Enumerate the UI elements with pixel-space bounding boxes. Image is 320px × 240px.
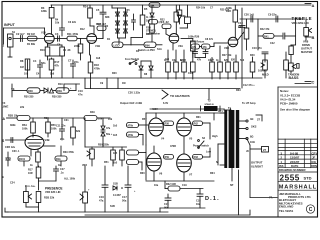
potentiometer VR7 BASS — [290, 45, 292, 46]
MARSHALL — [278, 189, 318, 191]
resistor R57b — [127, 160, 139, 165]
potentiometer VR2 PRESENCE — [24, 192, 29, 203]
resistor R42 — [246, 19, 248, 28]
resistor R25 — [183, 50, 185, 62]
label VR8 OUTPUT MASTER — [301, 40, 312, 55]
svg-text:C7: C7 — [68, 59, 72, 63]
wire — [112, 7, 118, 9]
svg-text:.1a: .1a — [60, 172, 64, 175]
capacitor C05 — [133, 14, 135, 20]
resistor R3 — [51, 18, 53, 34]
resistor R49 — [84, 116, 148, 171]
svg-text:DRIVE: DRIVE — [302, 43, 310, 47]
svg-text:V4: V4 — [161, 137, 165, 141]
resistor R63 — [193, 155, 203, 160]
svg-text:47k: 47k — [192, 46, 197, 49]
svg-text:R17: R17 — [55, 60, 60, 64]
svg-text:ENGLAND: ENGLAND — [279, 205, 293, 209]
svg-text:14-087: 14-087 — [113, 194, 121, 197]
svg-text:10k: 10k — [150, 3, 155, 7]
wire ground bus bottom — [4, 208, 6, 212]
svg-text:47k: 47k — [55, 64, 60, 68]
svg-text:C9 22n: C9 22n — [268, 13, 277, 17]
revision rows text — [279, 152, 317, 169]
resistor R22 — [151, 5, 153, 13]
svg-text:C19: C19 — [182, 184, 187, 187]
svg-text:47k: 47k — [197, 59, 202, 62]
svg-text:+: + — [88, 189, 90, 192]
svg-text:See also 50w diagram: See also 50w diagram — [280, 108, 310, 112]
resistor R12 — [80, 39, 82, 45]
svg-text:R36: R36 — [44, 117, 49, 120]
svg-text:68K: 68K — [105, 16, 110, 19]
switch S2 standby — [198, 140, 200, 142]
svg-text:V6: V6 — [159, 172, 163, 176]
resistor R39 — [56, 88, 69, 93]
resistor R10 — [47, 43, 49, 47]
svg-text:PRESENCE: PRESENCE — [45, 187, 63, 191]
svg-text:Low: Low — [206, 151, 211, 154]
svg-text:C16: C16 — [99, 195, 104, 199]
tone stack right — [238, 8, 315, 88]
svg-text:R62: R62 — [194, 123, 199, 126]
capacitor C15 — [167, 194, 169, 198]
address — [279, 192, 311, 213]
svg-text:C4: C4 — [36, 73, 40, 76]
copyright circle — [306, 205, 314, 213]
resistor R90 — [144, 42, 156, 48]
svg-text:C11 22n: C11 22n — [56, 125, 66, 128]
svg-text:C05: C05 — [125, 9, 130, 12]
svg-text:390k: 390k — [10, 124, 16, 127]
notes text block — [280, 89, 310, 112]
svg-text:A: A — [3, 117, 6, 121]
svg-text:R101: R101 — [19, 158, 26, 161]
svg-text:VR8: VR8 — [303, 40, 309, 44]
svg-text:S: S — [2, 139, 5, 143]
resistor R55b — [127, 132, 139, 137]
svg-text:2555: 2555 — [280, 173, 300, 182]
svg-text:MARSHALL: MARSHALL — [279, 185, 317, 191]
svg-text:C10: C10 — [78, 89, 83, 93]
wire ground bus — [4, 78, 263, 89]
connector J7 — [256, 114, 262, 116]
capacitor C6b — [162, 24, 171, 29]
capacitor C5 — [97, 38, 104, 40]
svg-text:R39 330: R39 330 — [52, 96, 62, 99]
LED indicator — [112, 42, 123, 48]
svg-text:A: A — [312, 3, 315, 8]
svg-text:V3B: V3B — [45, 138, 50, 142]
wire — [153, 146, 155, 153]
pentode V7 — [177, 154, 192, 172]
resistor R26 — [192, 39, 194, 42]
capacitor C19 — [239, 25, 245, 27]
capacitor C6 — [48, 44, 63, 46]
svg-text:DRN: DRN — [311, 164, 317, 168]
resistor R52 — [121, 147, 123, 150]
resistor R2 — [28, 36, 38, 41]
svg-text:1k8: 1k8 — [165, 58, 170, 61]
svg-text:10k: 10k — [55, 22, 60, 25]
svg-text:47a: 47a — [99, 199, 104, 203]
svg-text:16a: 16a — [196, 203, 201, 206]
transformer T1 output — [220, 107, 277, 200]
svg-text:16Ω: 16Ω — [250, 141, 255, 144]
capacitor C32 — [7, 152, 9, 158]
svg-text:50a: 50a — [122, 199, 127, 203]
svg-text:R24 10k: R24 10k — [196, 7, 206, 10]
svg-text:XLR/SKT: XLR/SKT — [251, 165, 263, 169]
diode D2 — [116, 12, 120, 16]
resistor R17c — [5, 166, 168, 212]
svg-text:C4: C4 — [33, 59, 37, 63]
svg-text:R30: R30 — [28, 89, 33, 93]
svg-text:STAND B: STAND B — [205, 103, 215, 106]
input jack J1 — [8, 34, 14, 47]
resistor R33 — [252, 57, 254, 62]
heater wiring TO HEATERS — [150, 89, 231, 112]
svg-text:56a +: 56a + — [106, 133, 113, 136]
svg-text:1M: 1M — [20, 65, 24, 69]
svg-text:100k: 100k — [51, 128, 57, 131]
svg-text:TREBLE: TREBLE — [292, 16, 313, 21]
svg-text:820R: 820R — [180, 59, 186, 62]
svg-text:R3B 10k: R3B 10k — [8, 115, 18, 118]
svg-text:V7: V7 — [189, 173, 193, 177]
svg-text:C2 4n7: C2 4n7 — [16, 32, 25, 36]
svg-text:D1: D1 — [107, 38, 111, 41]
svg-text:68n: 68n — [41, 61, 46, 65]
triode V1A — [44, 34, 54, 44]
svg-text:R59: R59 — [165, 156, 170, 159]
svg-text:C: C — [312, 80, 315, 85]
svg-text:Switch on PSU: Switch on PSU — [138, 49, 155, 52]
svg-text:SP: SP — [230, 184, 234, 187]
svg-text:C19: C19 — [238, 21, 243, 25]
svg-text:V1B: V1B — [95, 44, 100, 48]
svg-text:R61: R61 — [196, 116, 201, 119]
resistor R26b — [192, 51, 194, 62]
svg-text:R51: R51 — [104, 161, 109, 164]
svg-text:R58: R58 — [165, 123, 170, 126]
svg-text:R64: R64 — [210, 172, 215, 175]
svg-text:S1B: S1B — [110, 205, 115, 208]
svg-text:1k8: 1k8 — [50, 73, 55, 76]
diode D3 — [124, 12, 128, 16]
svg-text:C3B 12a: C3B 12a — [5, 146, 15, 149]
svg-text:8Ω: 8Ω — [250, 136, 253, 139]
svg-text:R8: R8 — [20, 59, 24, 63]
svg-text:S1A: S1A — [157, 48, 162, 51]
resistor R62b — [193, 121, 203, 126]
svg-text:ALL 100k: ALL 100k — [64, 178, 76, 181]
svg-text:R41: R41 — [264, 35, 269, 38]
svg-text:Output XLR J.10B: Output XLR J.10B — [120, 101, 142, 105]
resistor R23 — [167, 50, 169, 62]
revision table — [278, 138, 318, 140]
svg-text:LED: LED — [114, 43, 121, 47]
svg-text:R39: R39 — [57, 89, 62, 93]
wire — [220, 112, 224, 114]
svg-text:R27 10k: R27 10k — [222, 54, 232, 57]
svg-text:Foot Switch: Foot Switch — [125, 58, 140, 61]
phase splitter stage — [2, 115, 84, 167]
svg-text:B: B — [312, 35, 315, 40]
svg-text:MASTER: MASTER — [301, 50, 312, 54]
svg-text:BASS: BASS — [289, 76, 300, 80]
resistor R24 — [175, 50, 177, 62]
resistor R27 — [211, 58, 213, 63]
svg-text:C6: C6 — [57, 43, 61, 47]
svg-text:10R: 10R — [28, 172, 33, 175]
svg-text:82k: 82k — [76, 130, 81, 133]
svg-text:10k: 10k — [108, 118, 113, 121]
resistor R2B — [36, 192, 41, 203]
svg-text:R50 220k: R50 220k — [98, 144, 109, 147]
potentiometer VR3 bias — [91, 147, 93, 149]
svg-text:C30 .1: C30 .1 — [12, 150, 20, 153]
svg-text:1: 1 — [3, 44, 5, 48]
svg-text:+: + — [70, 87, 72, 90]
svg-text:6.3V: 6.3V — [163, 102, 168, 105]
diode D4 — [44, 88, 48, 93]
svg-text:470k: 470k — [128, 134, 134, 137]
svg-text:INPUT: INPUT — [4, 23, 16, 27]
speaker jacks SK2 — [239, 120, 246, 122]
capacitor C18 — [199, 189, 201, 195]
svg-text:495V: 495V — [152, 108, 158, 111]
svg-text:470k: 470k — [128, 125, 134, 128]
node C — [305, 81, 311, 83]
svg-text:C3 22n: C3 22n — [68, 21, 77, 24]
svg-text:R62 10R: R62 10R — [166, 183, 176, 186]
resistor R17b — [149, 20, 158, 25]
svg-text:R49: R49 — [90, 111, 95, 114]
svg-text:77.: 77. — [269, 196, 273, 200]
svg-text:R22: R22 — [160, 19, 165, 22]
diode D5 and resistor feed — [144, 3, 244, 58]
svg-text:5k6: 5k6 — [240, 59, 245, 62]
resistor R16 — [142, 5, 144, 15]
pentode V6 — [147, 153, 162, 171]
svg-text:R12: R12 — [80, 28, 85, 31]
node B — [305, 36, 311, 38]
svg-text:C20 1.32a: C20 1.32a — [128, 91, 141, 95]
wire — [231, 168, 233, 181]
resistor R56 — [47, 118, 49, 122]
diode D9 — [149, 66, 153, 70]
svg-text:C22: C22 — [270, 42, 275, 45]
svg-text:E: E — [2, 175, 4, 179]
svg-text:470R: 470R — [170, 145, 176, 148]
svg-text:10k: 10k — [210, 59, 215, 62]
FX loop resistor R30 — [2, 84, 84, 109]
resistor R45 — [285, 55, 287, 60]
svg-text:DRAWING NUMBER: DRAWING NUMBER — [279, 168, 306, 172]
triode V1B — [83, 5, 106, 56]
pentode V4 — [149, 118, 164, 136]
svg-text:D5: D5 — [144, 7, 148, 11]
wire — [13, 38, 45, 40]
svg-text:R30 330: R30 330 — [24, 96, 34, 99]
diode clipping cluster D2 D3 — [97, 5, 162, 52]
svg-text:SK2: SK2 — [251, 125, 257, 129]
svg-text:R10: R10 — [40, 48, 45, 52]
svg-text:C12 47n +: C12 47n + — [243, 84, 255, 87]
resistor R17a — [51, 58, 53, 59]
capacitor C27 — [55, 166, 57, 169]
svg-text:R20: R20 — [112, 72, 117, 75]
svg-text:PCB= JM600: PCB= JM600 — [280, 102, 298, 106]
resistor R8 — [11, 58, 79, 91]
svg-text:R60: R60 — [140, 172, 145, 175]
svg-text:1M: 1M — [122, 82, 125, 85]
wire transformer secondary return — [238, 170, 240, 215]
svg-text:10k: 10k — [24, 73, 29, 76]
svg-text:C31: C31 — [64, 119, 69, 122]
wire — [172, 43, 174, 50]
zener diodes D6 D7 — [101, 126, 105, 130]
svg-text:C1 .68: C1 .68 — [63, 49, 71, 52]
svg-text:C?: C? — [210, 7, 214, 10]
svg-text:HT1: HT1 — [218, 110, 223, 113]
svg-text:D.1.: D.1. — [205, 196, 220, 202]
svg-text:J6: J6 — [246, 150, 249, 153]
svg-text:1k8: 1k8 — [96, 57, 101, 60]
svg-text:22n: 22n — [60, 138, 65, 141]
svg-text:27: 27 — [257, 118, 261, 122]
svg-text:S2: S2 — [202, 137, 206, 140]
svg-text:LINE: LINE — [2, 105, 9, 109]
svg-text:R2 1M: R2 1M — [27, 32, 35, 36]
svg-text:STD: STD — [304, 176, 312, 181]
pentode V5 — [177, 118, 192, 136]
svg-text:1k5: 1k5 — [113, 134, 118, 137]
svg-text:R18: R18 — [94, 63, 99, 67]
svg-text:V5: V5 — [189, 137, 193, 141]
node 1 — [4, 27, 45, 29]
resistor R59 — [164, 155, 174, 160]
svg-text:C3: C3 — [55, 32, 59, 36]
svg-text:47k: 47k — [203, 46, 208, 49]
svg-text:D8: D8 — [144, 73, 148, 76]
diode S1B — [113, 186, 117, 190]
svg-text:VR2 22K LIN: VR2 22K LIN — [45, 190, 61, 194]
capacitor C16 — [104, 166, 106, 185]
resistor R5A — [32, 118, 34, 122]
diode D8 — [139, 66, 143, 70]
resistor R32 — [235, 55, 237, 62]
cathode resistor row — [164, 46, 238, 79]
resistor R41 and capacitor C22 — [263, 34, 274, 39]
svg-text:R25 82k: R25 82k — [220, 9, 230, 12]
svg-text:Power switch: Power switch — [193, 145, 209, 148]
wire — [117, 8, 119, 38]
capacitor C17 — [127, 166, 129, 185]
svg-text:TO HEATERS: TO HEATERS — [170, 94, 190, 98]
svg-text:C: C — [309, 207, 313, 213]
resistor R31 — [227, 46, 229, 62]
svg-text:C8 47n: C8 47n — [205, 38, 214, 41]
svg-text:100k: 100k — [22, 128, 28, 131]
resistor R40b — [72, 118, 74, 127]
svg-text:R63: R63 — [194, 156, 199, 159]
wire — [241, 8, 243, 88]
svg-text:C32: C32 — [6, 158, 11, 161]
svg-text:High: High — [212, 135, 218, 138]
resistor R62 and filter caps — [164, 181, 166, 189]
resistor R51 — [112, 147, 114, 150]
resistor R14 — [93, 26, 95, 35]
svg-text:R14: R14 — [83, 5, 88, 9]
svg-text:R33: R33 — [236, 89, 241, 92]
resistor R58 — [164, 121, 174, 126]
svg-text:C9: C9 — [100, 82, 104, 85]
wire — [48, 5, 86, 89]
svg-text:100k: 100k — [180, 14, 186, 18]
triode V3 — [25, 136, 44, 150]
svg-text:R39 470k: R39 470k — [63, 151, 74, 154]
resistor R14 — [175, 22, 177, 34]
svg-text:22k: 22k — [20, 106, 25, 109]
svg-text:R40: R40 — [250, 54, 255, 57]
svg-text:R90: R90 — [145, 43, 150, 47]
wire ground bus — [85, 214, 250, 216]
svg-text:N: N — [216, 161, 218, 164]
wire — [89, 43, 91, 55]
wire HT supply top bus — [51, 3, 315, 8]
resistor R37 — [30, 150, 32, 154]
capacitor C4 — [39, 60, 41, 65]
svg-text:To HT Amp: To HT Amp — [242, 101, 256, 105]
potentiometer VR4 — [80, 166, 250, 215]
svg-text:R57: R57 — [142, 118, 147, 121]
wire plate supply — [146, 112, 224, 114]
svg-text:R1 68k: R1 68k — [27, 43, 36, 46]
triode V2A — [169, 34, 179, 44]
svg-text:S1B: S1B — [113, 183, 118, 186]
svg-text:R19: R19 — [58, 83, 63, 86]
svg-text:27: 27 — [263, 148, 267, 152]
svg-text:100k R26: 100k R26 — [188, 35, 200, 39]
wire tone stack — [240, 18, 302, 20]
svg-text:OUTPUT: OUTPUT — [301, 47, 312, 51]
svg-text:820: 820 — [231, 59, 236, 62]
svg-text:R21: R21 — [146, 33, 151, 36]
svg-text:1k5: 1k5 — [113, 162, 118, 165]
svg-text:1k5: 1k5 — [113, 125, 118, 128]
svg-text:+: + — [34, 185, 36, 188]
svg-text:16a: 16a — [154, 184, 159, 187]
resistor R38 — [55, 156, 67, 161]
resistor R18 — [88, 55, 153, 105]
title block — [278, 139, 318, 213]
svg-text:R2B 22k: R2B 22k — [44, 196, 55, 200]
svg-text:180k: 180k — [41, 9, 47, 13]
svg-text:C5: C5 — [96, 8, 100, 12]
svg-text:V1A: V1A — [41, 31, 46, 35]
resistor R56b — [127, 150, 139, 155]
resistor R28 — [234, 22, 236, 38]
capacitor C7 — [72, 60, 74, 64]
svg-text:47n: 47n — [78, 93, 83, 97]
wire — [118, 37, 126, 39]
potentiometer VR5 MID — [264, 60, 266, 62]
svg-text:V2A: V2A — [178, 44, 183, 48]
connector 27 — [262, 147, 269, 153]
svg-text:Notes:: Notes: — [280, 89, 289, 93]
